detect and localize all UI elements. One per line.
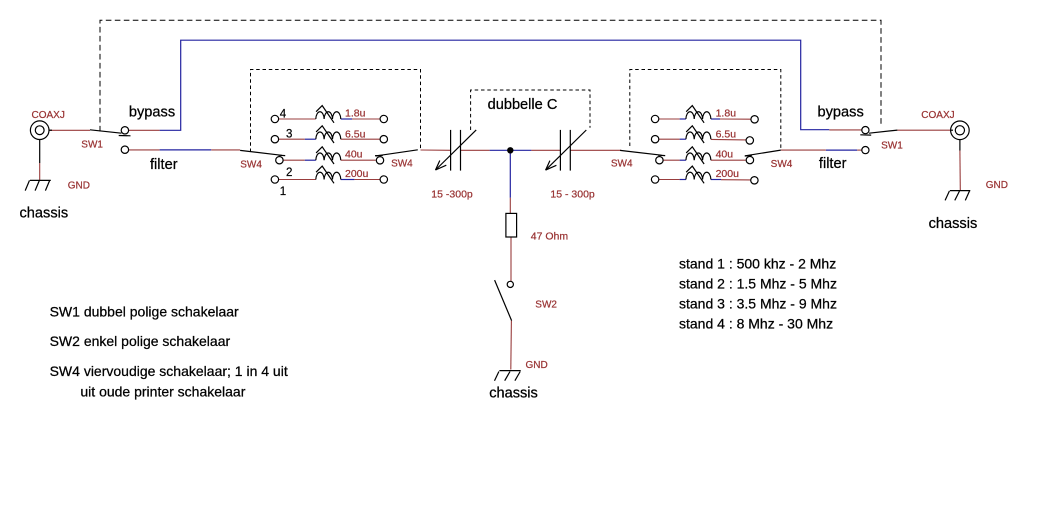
svg-text:GND: GND <box>986 180 1008 191</box>
svg-text:47 Ohm: 47 Ohm <box>531 231 569 243</box>
svg-text:stand 1 : 500 khz - 2 Mhz: stand 1 : 500 khz - 2 Mhz <box>679 255 836 271</box>
svg-text:2: 2 <box>286 167 292 179</box>
svg-text:200u: 200u <box>716 168 740 180</box>
svg-text:1.8u: 1.8u <box>716 108 737 120</box>
svg-text:SW1: SW1 <box>81 140 103 151</box>
svg-text:3: 3 <box>286 129 292 141</box>
svg-text:GND: GND <box>526 360 548 371</box>
svg-text:chassis: chassis <box>929 216 978 232</box>
svg-text:COAXJ: COAXJ <box>921 110 954 121</box>
svg-text:dubbelle C: dubbelle C <box>488 97 558 113</box>
svg-text:40u: 40u <box>716 148 734 160</box>
svg-text:filter: filter <box>150 157 178 173</box>
svg-text:SW4: SW4 <box>611 158 633 169</box>
svg-text:SW2 enkel polige schakelaar: SW2 enkel polige schakelaar <box>50 333 231 349</box>
svg-text:COAXJ: COAXJ <box>32 110 65 121</box>
svg-text:1: 1 <box>280 186 286 198</box>
svg-text:chassis: chassis <box>20 205 69 221</box>
svg-text:stand 3 : 3.5 Mhz - 9 Mhz: stand 3 : 3.5 Mhz - 9 Mhz <box>679 295 837 311</box>
svg-text:SW1 dubbel polige schakelaar: SW1 dubbel polige schakelaar <box>50 304 239 320</box>
svg-text:SW4 viervoudige schakelaar; 1: SW4 viervoudige schakelaar; 1 in 4 uit <box>50 363 288 379</box>
svg-text:15 - 300p: 15 - 300p <box>550 188 595 200</box>
svg-text:bypass: bypass <box>818 105 864 121</box>
svg-text:stand 4 : 8 Mhz - 30 Mhz: stand 4 : 8 Mhz - 30 Mhz <box>679 315 833 331</box>
svg-text:bypass: bypass <box>129 105 175 121</box>
svg-text:1.8u: 1.8u <box>345 108 366 120</box>
svg-text:4: 4 <box>280 108 287 120</box>
svg-text:6.5u: 6.5u <box>345 128 366 140</box>
svg-text:SW2: SW2 <box>535 300 557 311</box>
svg-text:SW4: SW4 <box>391 159 413 170</box>
svg-text:chassis: chassis <box>489 386 538 402</box>
svg-text:6.5u: 6.5u <box>716 128 737 140</box>
svg-text:stand 2 : 1.5 Mhz - 5 Mhz: stand 2 : 1.5 Mhz - 5 Mhz <box>679 275 837 291</box>
svg-text:40u: 40u <box>345 148 363 160</box>
svg-text:200u: 200u <box>345 168 369 180</box>
svg-text:GND: GND <box>68 180 90 191</box>
svg-text:filter: filter <box>819 156 847 172</box>
svg-text:SW4: SW4 <box>771 159 793 170</box>
svg-text:15 -300p: 15 -300p <box>431 188 473 200</box>
svg-text:uit oude printer schakelaar: uit oude printer schakelaar <box>80 384 245 400</box>
svg-text:SW4: SW4 <box>240 160 262 171</box>
svg-text:SW1: SW1 <box>881 141 903 152</box>
